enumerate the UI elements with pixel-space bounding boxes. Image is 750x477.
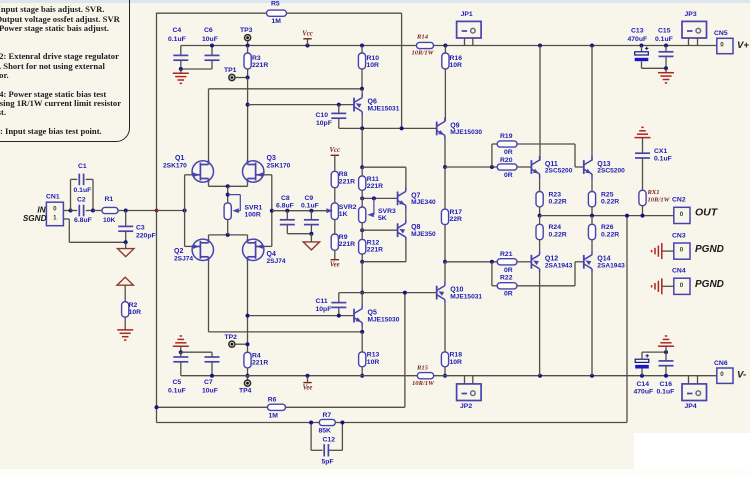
resistor R20 (497, 164, 517, 170)
connector CN6 (717, 368, 733, 383)
power Vcc above R8 (331, 154, 339, 156)
svg-text:5K: 5K (378, 215, 387, 222)
junction C6 rail (210, 44, 214, 48)
junction R3/TP1 (246, 76, 250, 80)
svg-text:10R/1W: 10R/1W (648, 197, 671, 204)
junction R25/R26 (590, 214, 594, 218)
svg-text:0.22R: 0.22R (549, 199, 567, 206)
power Vee on rail (306, 374, 310, 378)
resistor R7 (319, 419, 335, 425)
junction input node on border (155, 209, 159, 213)
wire Q4 drain (247, 261, 249, 352)
svg-text:R25: R25 (601, 192, 614, 199)
ground above C5 (173, 345, 189, 347)
transistor Q10 MJE15031 pnp (437, 282, 445, 304)
capacitor C7 (211, 352, 213, 357)
test point TP4 (247, 376, 249, 380)
svg-text:0.1uF: 0.1uF (74, 187, 92, 194)
wire R24 to Q12 (539, 240, 541, 251)
svg-text:0.22R: 0.22R (549, 231, 567, 238)
wire Q9em to R19/R20 (445, 166, 497, 168)
svg-text:MJE15030: MJE15030 (368, 316, 400, 323)
wire Q5 emitter (361, 327, 363, 332)
wire top border left segment (157, 12, 267, 14)
svg-text:MJE350: MJE350 (411, 231, 436, 238)
junction C16 rail (664, 374, 668, 378)
capacitor C3 (125, 211, 127, 227)
svg-text:0R: 0R (504, 267, 513, 274)
svg-text:Vcc: Vcc (330, 147, 341, 154)
transistor Q7 MJE340 npn (398, 187, 406, 209)
svg-text:10pF: 10pF (316, 306, 332, 313)
resistor R19 (497, 141, 517, 147)
wire CN3 ground (662, 250, 674, 252)
svg-text:TP1: TP1 (224, 67, 237, 74)
wire V+ rail (181, 45, 417, 47)
svg-text:1K: 1K (339, 211, 348, 218)
transistor Q6 MJE15031 pnp (354, 94, 362, 116)
wire gate2 to caps (272, 210, 331, 212)
svg-text:2SK170: 2SK170 (163, 163, 187, 170)
bottom-right white area (634, 433, 750, 470)
capacitor C10 (337, 103, 341, 107)
wire input to gates (157, 210, 185, 212)
junction R13 rail (360, 374, 364, 378)
svg-text:85K: 85K (319, 428, 332, 435)
transistor Q14 2SA1943 pnp (584, 251, 592, 273)
svg-text:Vee: Vee (303, 384, 313, 391)
transistor Q13 2SC5200 npn (584, 156, 592, 178)
transistor Q12 2SA1943 pnp (531, 251, 539, 273)
resistor R24 (539, 216, 541, 225)
bottom white strip (0, 469, 750, 477)
svg-text:PGND: PGND (695, 279, 724, 290)
svg-text:0.1uF: 0.1uF (168, 36, 186, 43)
junction TP3 rail (246, 44, 250, 48)
wire R23 bottom (539, 207, 541, 216)
svg-text:0: 0 (680, 211, 684, 218)
svg-text:JP3: JP3 (685, 11, 697, 18)
svg-text:R26: R26 (601, 224, 614, 231)
svg-text:100R: 100R (245, 211, 261, 218)
wire Q1 drain to R10/Q6 (209, 88, 363, 90)
svg-text:6.8uF: 6.8uF (74, 217, 92, 224)
resistor R3 (247, 46, 249, 54)
wire Q10 base wire (339, 292, 437, 294)
svg-text:Vee: Vee (330, 261, 340, 268)
svg-text:2SC5200: 2SC5200 (545, 168, 573, 175)
test point TP3 (245, 35, 251, 41)
svg-text:0R: 0R (504, 290, 513, 297)
svg-text:C16: C16 (660, 381, 673, 388)
test point TP2 (229, 341, 235, 347)
wire Q6 collector (361, 116, 363, 129)
wire Q4 source (247, 235, 249, 239)
ground under R2 (124, 317, 126, 330)
resistor R25 (591, 178, 593, 192)
junction R1/C3 (124, 209, 128, 213)
svg-text:0: 0 (680, 247, 684, 254)
svg-text:10R/1W: 10R/1W (412, 50, 435, 57)
svg-text:221R: 221R (367, 246, 383, 253)
capacitor C1 branch (70, 179, 72, 210)
wire Q11 collector (539, 46, 541, 161)
svg-text:R13: R13 (367, 352, 380, 359)
junction Q5 emitter / R13 (360, 330, 364, 334)
capacitor CX1 (635, 152, 650, 154)
junction C13/C15 ground (664, 66, 668, 70)
resistor R16 (444, 46, 446, 54)
wire R25 bottom (591, 207, 593, 216)
svg-text:C8: C8 (281, 195, 290, 202)
svg-text:0: 0 (53, 206, 57, 213)
junction C3 ground (124, 240, 128, 244)
svg-text:R11: R11 (367, 176, 379, 183)
potentiometer SVR3 (361, 190, 363, 207)
svg-text:R23: R23 (549, 192, 562, 199)
svg-text:470uF: 470uF (628, 36, 648, 43)
wire to C10/Q6 base (248, 104, 354, 106)
svg-text:220pF: 220pF (136, 233, 156, 240)
svg-text:OUT: OUT (695, 207, 719, 219)
svg-text:10K: 10K (103, 217, 116, 224)
svg-text:TP4: TP4 (239, 388, 252, 395)
svg-text:R21: R21 (500, 251, 513, 258)
svg-text:6.8uF: 6.8uF (276, 202, 294, 209)
svg-text:C11: C11 (316, 298, 328, 305)
svg-text:R15: R15 (416, 364, 429, 371)
junction Q9 emitter node (443, 165, 447, 169)
junction R14/R16 rail (443, 44, 447, 48)
transistor Q3 2SK170 (243, 161, 264, 182)
ground under C4 (180, 69, 182, 73)
svg-text:TP2: TP2 (225, 334, 238, 341)
svg-text:C3: C3 (136, 225, 145, 232)
svg-text:C1: C1 (78, 163, 87, 170)
svg-text:R8: R8 (339, 171, 348, 178)
resistor RX1 (639, 190, 646, 206)
wire C10 to Q9 base (339, 127, 437, 129)
wire Q1 drain (208, 89, 210, 161)
junction C9 ground (309, 232, 313, 236)
resistor R14 (417, 42, 434, 48)
transistor Q11 2SC5200 npn (531, 156, 539, 178)
resistor R2 (124, 285, 126, 302)
svg-text:221R: 221R (252, 62, 268, 69)
junction Q4 drain / Q5 base (246, 314, 250, 318)
svg-text:V-: V- (737, 370, 746, 381)
junction R12 bottom (360, 260, 364, 264)
junction R11 top (360, 165, 364, 169)
svg-text:C4: C4 (173, 27, 182, 34)
wire Q10node to R21 (445, 261, 497, 263)
svg-text:2SA1943: 2SA1943 (545, 263, 573, 270)
junction R4 rail (246, 374, 250, 378)
wire Q5 collector (361, 293, 363, 305)
svg-text:C9: C9 (305, 195, 314, 202)
svg-text:CN5: CN5 (714, 30, 728, 37)
junction Q14 collector rail (590, 374, 594, 378)
svg-text:CN2: CN2 (672, 197, 686, 204)
capacitor C8 (285, 209, 289, 213)
junction Q12 collector rail (538, 374, 542, 378)
svg-text:5pF: 5pF (322, 459, 334, 466)
wire Q4 gate (264, 245, 272, 247)
svg-text:221R: 221R (252, 360, 268, 367)
junction Q11 collector rail (538, 44, 542, 48)
resistor R8 (334, 155, 336, 171)
wire Q3/Q4 gate vertical (271, 175, 273, 247)
svg-text:R14: R14 (416, 33, 429, 40)
connector CN3 (674, 243, 690, 259)
wire R12 bottom (361, 254, 363, 262)
svg-text:R3: R3 (252, 55, 261, 62)
svg-text:R9: R9 (339, 234, 348, 241)
jumper JP2 (457, 384, 482, 401)
svg-text:470uF: 470uF (634, 389, 654, 396)
capacitor C15 (664, 44, 668, 48)
svg-text:2SC5200: 2SC5200 (597, 168, 625, 175)
wire Q13 collector (591, 46, 593, 161)
wire R13 to rail (361, 367, 363, 376)
wire output rail (540, 215, 674, 217)
svg-text:Q1: Q1 (175, 155, 184, 162)
wire Q7/Q8 emitters (405, 209, 407, 219)
wire Q10 collector (444, 304, 446, 352)
transistor Q4 2SJ74 (243, 239, 264, 260)
transistor Q9 MJE15030 npn (437, 117, 445, 139)
capacitor C9 (309, 209, 313, 213)
svg-text:MJE340: MJE340 (411, 199, 436, 206)
svg-text:CN4: CN4 (672, 268, 686, 275)
svg-text:221R: 221R (339, 178, 355, 185)
junction Q13 collector rail (590, 44, 594, 48)
wire Q2 source (208, 235, 210, 239)
svg-text:SVR3: SVR3 (378, 208, 396, 215)
svg-text:22R: 22R (450, 216, 463, 223)
wire R17 to Q10 (444, 225, 446, 262)
wire Q10 emitter (444, 262, 446, 282)
svg-text:R22: R22 (500, 275, 513, 282)
svg-text:C6: C6 (204, 27, 213, 34)
wire bottom border right (335, 422, 627, 424)
wire R26 to Q14 (591, 240, 593, 251)
svg-text:R19: R19 (500, 133, 513, 140)
capacitor C16 (665, 352, 667, 361)
svg-text:R1: R1 (105, 196, 114, 203)
resistor R6 (268, 404, 286, 410)
power Vcc on rail (306, 44, 310, 48)
svg-text:C12: C12 (323, 436, 336, 443)
transistor Q8 MJE350 pnp (398, 219, 406, 241)
test point TP1 (229, 74, 235, 80)
svg-text:CX1: CX1 (654, 148, 667, 155)
svg-text:RX1: RX1 (647, 189, 660, 196)
junction node to Q6 base (246, 103, 250, 107)
wire base Q7 (362, 197, 397, 199)
resistor R1 (93, 210, 102, 212)
svg-text:R24: R24 (549, 224, 562, 231)
wire C4-C6 bottoms (181, 68, 212, 70)
junction SVR1 top (226, 184, 230, 188)
svg-text:0R: 0R (504, 172, 513, 179)
ground left CN4 (661, 278, 663, 294)
resistor R15 (417, 373, 433, 379)
resistor R18 (441, 352, 448, 367)
svg-text:MJE15030: MJE15030 (450, 129, 482, 136)
wire feedback R6 (157, 406, 268, 408)
resistor R21 (497, 259, 517, 265)
junction R19/R20 left (490, 165, 494, 169)
svg-text:0.1uF: 0.1uF (655, 36, 673, 43)
wire Q9 emitter down (444, 139, 446, 167)
svg-text:0: 0 (680, 282, 684, 289)
wire R11 to Q7 collector (362, 166, 406, 168)
connector CN4 (674, 278, 690, 294)
junction R10/Q6 emitter (360, 87, 364, 91)
svg-text:CN3: CN3 (672, 232, 686, 239)
resistor R22 (497, 283, 517, 289)
svg-text:R20: R20 (500, 157, 513, 164)
svg-text:10pF: 10pF (316, 120, 332, 127)
svg-text:C14: C14 (637, 381, 650, 388)
junction R6 to base wire (403, 291, 407, 295)
svg-text:0R: 0R (504, 149, 513, 156)
svg-text:0.22R: 0.22R (601, 231, 619, 238)
resistor R26 (591, 216, 593, 225)
wire CN1 pin0 (63, 210, 70, 212)
top blue strip (0, 0, 750, 3)
junction C7 rail (210, 374, 214, 378)
wire Q3 drain (247, 78, 249, 161)
wire Q2 drain (208, 261, 210, 332)
svg-text:TP3: TP3 (240, 27, 253, 34)
junction C1/C2 left (69, 209, 73, 213)
svg-text:JP1: JP1 (461, 11, 473, 18)
svg-text:221R: 221R (367, 183, 383, 190)
note box border (0, 0, 130, 142)
jumper JP3 (682, 21, 707, 38)
svg-text:CN6: CN6 (714, 360, 728, 367)
wire R22 to Q14 base (517, 285, 575, 287)
svg-text:R12: R12 (367, 239, 380, 246)
svg-text:C5: C5 (173, 379, 182, 386)
junction C4 ground (179, 67, 183, 71)
junction gate2 node (270, 209, 274, 213)
jumper JP1 (457, 21, 482, 38)
junction C11 bottom (337, 314, 341, 318)
svg-text:Q2: Q2 (174, 248, 183, 255)
svg-text:Q4: Q4 (267, 251, 276, 258)
wire Q2 drain to R13 (209, 331, 363, 333)
wire R19 to Q13 base (517, 143, 575, 145)
junction R7/C12 right (340, 421, 344, 425)
wire R12 to Q8 collector (362, 261, 406, 263)
wire Q12 collector (539, 273, 541, 376)
wire Q6 emitter (361, 89, 363, 94)
resistor R11 (361, 167, 363, 176)
capacitor C5 (180, 352, 182, 357)
capacitor C13 polarized (640, 44, 644, 48)
connector CN2 (674, 207, 690, 223)
svg-text:0.1uF: 0.1uF (657, 389, 675, 396)
wire Q3 gate (264, 174, 272, 176)
svg-text:V+: V+ (737, 40, 749, 51)
wire bottom border (157, 422, 320, 424)
capacitor C11 (338, 293, 340, 303)
svg-text:R7: R7 (323, 412, 332, 419)
ground left CN3 (661, 243, 663, 259)
junction R21/R22 left (490, 260, 494, 264)
ground above CX1 (635, 137, 651, 139)
svg-text:R2: R2 (129, 302, 138, 309)
junction Q5 collector node (360, 291, 364, 295)
svg-text:10uF: 10uF (202, 388, 218, 395)
svg-text:0: 0 (720, 371, 724, 378)
svg-text:1M: 1M (269, 413, 279, 420)
resistor R23 (539, 178, 541, 192)
resistor R12 (361, 223, 363, 240)
svg-text:MJE15031: MJE15031 (368, 105, 400, 112)
potentiometer SVR2 (334, 188, 336, 203)
svg-text:R10: R10 (367, 55, 380, 62)
svg-text:C10: C10 (316, 112, 329, 119)
capacitor C14 polarized (640, 374, 644, 378)
resistor R13 (361, 332, 363, 352)
svg-text:0.1uF: 0.1uF (168, 388, 186, 395)
svg-text:1: 1 (53, 215, 57, 222)
junction C5 top (179, 350, 183, 354)
junction RX1 output (641, 214, 645, 218)
wire R20 to Q11 base (517, 166, 531, 168)
svg-text:R5: R5 (271, 0, 280, 7)
wire base Q8 (362, 229, 397, 231)
ground triangle under C9 (310, 234, 312, 242)
capacitor C6 (211, 46, 213, 56)
wire top border right segment (287, 12, 402, 14)
svg-text:SGND: SGND (23, 214, 47, 223)
junction R18 rail (443, 374, 447, 378)
svg-text:CN1: CN1 (46, 193, 60, 200)
svg-text:C7: C7 (204, 379, 213, 386)
svg-text:10R: 10R (450, 62, 463, 69)
junction R11/SVR3 (360, 196, 364, 200)
junction SVR3/R12 (360, 228, 364, 232)
svg-text:0.1uF: 0.1uF (654, 156, 672, 163)
resistor R5 (267, 10, 287, 16)
svg-text:R4: R4 (252, 352, 261, 359)
svg-text:JP2: JP2 (460, 403, 472, 410)
capacitor C12 (310, 423, 312, 451)
wire Q14 collector (591, 273, 593, 376)
transistor Q5 MJE15030 npn (354, 305, 362, 327)
ground arrow above R2 (117, 277, 133, 285)
svg-text:0: 0 (720, 41, 724, 48)
transistor Q1 2SK170 (192, 161, 213, 182)
svg-text:221R: 221R (339, 241, 355, 248)
ground above C16 (658, 345, 674, 347)
capacitor C4 (180, 46, 182, 56)
svg-text:C13: C13 (631, 28, 644, 35)
svg-text:10uF: 10uF (202, 36, 218, 43)
svg-text:R6: R6 (268, 396, 277, 403)
jumper JP4 (682, 384, 707, 401)
wire R18 to rail (444, 367, 446, 376)
svg-text:R17: R17 (450, 209, 463, 216)
wire R19 left vertical (491, 144, 493, 167)
wire V- rail (181, 375, 417, 377)
connector CN1 (46, 202, 63, 226)
